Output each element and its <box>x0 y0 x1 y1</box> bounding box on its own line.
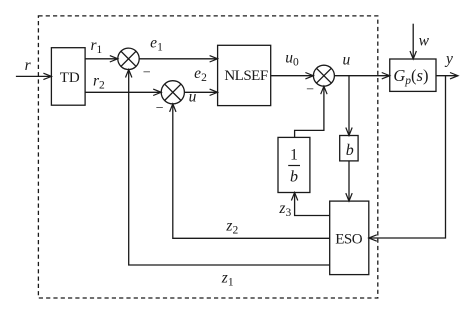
svg-text:y: y <box>444 51 453 68</box>
summer S3 (u = u0 - z3/b) <box>313 65 334 86</box>
block 1/b <box>278 137 310 192</box>
svg-text:1: 1 <box>290 147 298 164</box>
svg-text:NLSEF: NLSEF <box>224 68 268 84</box>
wire r2: TD to sum S2 <box>85 89 161 95</box>
svg-text:−: − <box>143 66 151 81</box>
wire z3: ESO to 1/b <box>291 193 329 216</box>
svg-text:TD: TD <box>60 70 80 86</box>
wire z2: ESO to S2 <box>170 104 330 238</box>
wire w disturbance into Gp(s) <box>410 24 416 59</box>
label 1/b fraction <box>288 147 300 186</box>
wire r1: TD to sum S1 <box>85 56 118 62</box>
wire r input <box>16 73 52 79</box>
svg-text:b: b <box>346 142 354 159</box>
block TD <box>51 48 85 105</box>
wire u branch down to b <box>346 76 352 136</box>
wire e1: S1 to NLSEF <box>139 56 217 62</box>
block Gp(s) <box>390 59 436 91</box>
svg-text:r: r <box>25 57 32 74</box>
svg-text:u: u <box>189 89 197 106</box>
wire y output <box>436 73 458 79</box>
dashed boundary box <box>38 16 377 298</box>
block NLSEF <box>218 45 271 105</box>
wire e2: S2 to NLSEF <box>184 89 217 95</box>
block ESO <box>330 201 369 275</box>
svg-text:−: − <box>306 82 314 97</box>
svg-text:−: − <box>156 101 164 116</box>
svg-text:u: u <box>343 51 351 68</box>
svg-text:Gp(s): Gp(s) <box>393 66 428 87</box>
wire b to ESO <box>346 161 352 201</box>
wire z1: ESO to S1 <box>126 70 330 266</box>
summer S2 (e2 = r2 - z2) <box>161 81 184 104</box>
wire 1/b output up into S3 <box>295 86 328 137</box>
wire u0: NLSEF to sum S3 <box>271 73 314 79</box>
svg-text:b: b <box>290 168 298 185</box>
wire y feedback to ESO <box>369 76 446 242</box>
svg-text:ESO: ESO <box>335 232 363 248</box>
block b <box>340 136 358 161</box>
svg-text:w: w <box>419 33 430 50</box>
wire u: S3 to Gp(s) <box>334 73 389 79</box>
summer S1 (e1 = r1 - z1) <box>118 48 139 69</box>
